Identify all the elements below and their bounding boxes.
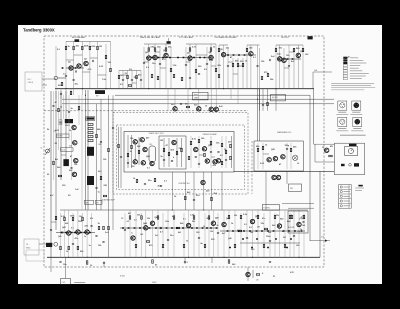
- junction 2: [82, 88, 83, 89]
- capacitor C92: [293, 236, 295, 237]
- resistor R26: [170, 68, 172, 71]
- svg-text:Tandberg 3300X: Tandberg 3300X: [23, 27, 55, 32]
- wire vertical out 16: [297, 45, 299, 89]
- capacitor C48: [70, 168, 72, 169]
- resistor R29b: [157, 76, 159, 79]
- left link c: [51, 221, 56, 223]
- left link a: [54, 130, 57, 132]
- resistor R27: [195, 69, 197, 72]
- resistor mic-amp R14: [97, 46, 99, 49]
- table row line 4: [339, 202, 352, 204]
- wire vertical rec-amp 8: [189, 44, 191, 89]
- capacitor C83: [217, 233, 219, 234]
- resistor bm R133: [204, 244, 206, 247]
- resistor R28: [215, 68, 217, 71]
- wire vertical out 7: [246, 45, 248, 89]
- relay board inner dashed box: [117, 125, 245, 190]
- resistor rec-amp R20: [148, 48, 150, 51]
- resistor eq R31: [127, 75, 129, 78]
- rotary switch S1: [45, 148, 50, 155]
- transistor Q5: [153, 55, 157, 59]
- resistor R72b: [131, 145, 133, 148]
- left harness wire 4: [68, 95, 70, 140]
- wire vertical mic-amp 1: [55, 46, 57, 89]
- central right wire 2: [198, 136, 200, 168]
- bot-mid path series part 3: [134, 227, 136, 229]
- tape speed box: [61, 279, 71, 285]
- bot-mid wire 10: [173, 210, 175, 257]
- pb path series part 6: [84, 232, 86, 234]
- resistor br R152: [257, 215, 259, 218]
- rec-amp link 4: [186, 61, 190, 63]
- eq switch box: [271, 95, 286, 101]
- svg-text:R LEVEL: R LEVEL: [264, 208, 270, 210]
- svg-text:TRACK SEL REC AMP: TRACK SEL REC AMP: [140, 36, 161, 39]
- legend text row 5: [350, 67, 359, 69]
- bot-mid path series part 13: [196, 227, 198, 229]
- wire vertical rec-amp 1: [143, 47, 145, 89]
- central left wire 2: [138, 137, 140, 165]
- resistor R57: [53, 161, 55, 164]
- pb amp wire 8: [91, 213, 93, 257]
- wire mic-amp top rail: [66, 41, 111, 43]
- VU meter symbol: [348, 148, 353, 153]
- resistor pb R102: [82, 217, 84, 220]
- capacitor C81: [167, 240, 169, 241]
- resistor bm R124: [193, 216, 195, 219]
- bot-mid path series part 12: [191, 227, 193, 229]
- legend text row 9: [350, 78, 362, 80]
- resistor br R151: [240, 215, 242, 218]
- resistor R66: [221, 143, 223, 146]
- table row symbol 2: [340, 191, 342, 193]
- below-bus stub 3: [65, 89, 67, 99]
- capacitor C31: [227, 66, 229, 67]
- bot-mid wire 8: [162, 213, 164, 257]
- shield drop rec: [168, 38, 170, 44]
- pinout caption BC147: [338, 111, 346, 113]
- junction 18: [203, 209, 204, 210]
- pb path series part 4: [74, 232, 76, 234]
- transistor Q39: [276, 175, 280, 179]
- transistor Q8: [209, 55, 213, 59]
- resistor pb R100: [64, 217, 66, 220]
- bot-right wire 1: [223, 210, 225, 257]
- resistor br R150: [228, 215, 230, 218]
- below-bus stub 6: [81, 89, 83, 95]
- meter unit box: [335, 143, 365, 175]
- bot-mid wire 15: [204, 213, 206, 257]
- resistor R29d: [181, 77, 183, 80]
- switch col wire 4: [65, 91, 67, 160]
- mic-amp path series part 1: [62, 67, 64, 69]
- din connector box: [289, 184, 302, 191]
- rec-amp path series part 8: [199, 57, 201, 59]
- resistor rec-amp R22: [165, 48, 167, 51]
- svg-text:1k8: 1k8: [302, 225, 305, 227]
- junction 15: [252, 257, 253, 258]
- wire vertical rec-amp 10: [206, 47, 208, 89]
- wire vertical rec-amp 5: [165, 44, 167, 89]
- capacitor C56: [120, 157, 122, 158]
- bot-mid wire 3: [135, 210, 137, 257]
- wire vertical out 4: [232, 58, 234, 89]
- svg-text:4k7: 4k7: [128, 212, 131, 215]
- bot-mid wire 9: [167, 210, 169, 257]
- out-amp path series part 3: [238, 54, 240, 56]
- bot-mid path series part 6: [155, 227, 157, 229]
- svg-text:X1: X1: [273, 276, 275, 278]
- transistor Q25: [133, 160, 137, 164]
- bot-mid wire 5: [145, 210, 147, 257]
- svg-text:PB/REC REL AMP: PB/REC REL AMP: [203, 133, 218, 136]
- bot-right extra2 series part 4: [286, 247, 288, 249]
- wire meter drop: [314, 144, 316, 162]
- switch stack 1: [63, 159, 69, 166]
- pinout circle AC187: [340, 119, 345, 124]
- resistor osc-div R45: [232, 63, 234, 66]
- capacitor C71: [72, 244, 74, 245]
- capacitor C34: [270, 59, 271, 61]
- bot-right wire 10: [274, 213, 276, 257]
- pb amp wire 2: [64, 210, 66, 257]
- capacitor C58: [112, 128, 114, 129]
- capacitor C90: [246, 238, 248, 239]
- resistor R49: [261, 76, 263, 79]
- capacitor C14: [206, 64, 208, 65]
- switch housing label: [87, 117, 94, 119]
- bot-right wire 16: [303, 213, 305, 257]
- resistor br R153: [274, 215, 276, 218]
- wire CN2 to amp: [39, 243, 53, 245]
- partition drop 4: [198, 89, 200, 111]
- svg-text:R/P: R/P: [96, 96, 99, 98]
- pb connect: [103, 261, 105, 267]
- transistor Q27: [150, 161, 154, 165]
- switch contact 3: [88, 132, 93, 134]
- wire eq net vertical 3: [127, 71, 129, 89]
- resistor out R40: [218, 48, 220, 51]
- svg-text:BIAS/ERASE OSC: BIAS/ERASE OSC: [277, 131, 292, 134]
- mid drop 1: [96, 104, 98, 210]
- transistor Q17: [214, 107, 218, 111]
- bot-right wire 6: [252, 210, 254, 257]
- bot-right extra series part 2: [256, 238, 258, 240]
- pinout caption AC187: [338, 128, 346, 130]
- svg-text:PLAYBACK AMP: PLAYBACK AMP: [102, 199, 116, 202]
- bot-mid path series part 9: [171, 227, 173, 229]
- pb head jack circle: [54, 242, 58, 246]
- resistor R71: [211, 197, 213, 200]
- resistor R50: [186, 106, 189, 108]
- transistor Q7: [188, 56, 192, 60]
- transistor Q34: [201, 180, 205, 184]
- transistor Q20: [74, 158, 78, 162]
- legend symbol 3: [343, 62, 347, 64]
- eq net link2: [132, 82, 137, 84]
- junction 9: [257, 99, 258, 100]
- capacitor C15: [189, 78, 191, 79]
- capacitor C33: [288, 66, 290, 67]
- svg-text:2k7: 2k7: [283, 237, 286, 239]
- transistor Q18: [72, 125, 76, 129]
- svg-text:TRACK SEL 7.5/3.8: TRACK SEL 7.5/3.8: [149, 132, 164, 135]
- capacitor C72: [62, 231, 63, 233]
- osc net link 1: [228, 61, 233, 63]
- svg-text:S1: S1: [41, 148, 43, 150]
- left harness wire 7: [81, 95, 83, 210]
- transistor Q13: [296, 53, 300, 57]
- bot-right wire 4: [240, 213, 242, 257]
- bottom label line: [74, 282, 85, 284]
- transistor Q51: [277, 224, 281, 228]
- transistor Q15: [197, 107, 201, 111]
- pinout caption BC149: [352, 111, 360, 113]
- mic-amp signal path: [58, 77, 66, 79]
- osc dashed drop: [251, 141, 253, 194]
- capacitor C57: [100, 142, 102, 143]
- central left wire a: [127, 135, 129, 168]
- resistor R69: [230, 156, 232, 159]
- capacitor C101 below bus: [103, 263, 105, 264]
- svg-text:5 PO REC AMP: 5 PO REC AMP: [179, 36, 194, 39]
- wire CN1 to board: [42, 78, 56, 80]
- partition drop 6: [215, 89, 217, 111]
- central right wire 4: [221, 136, 223, 168]
- resistor R56: [78, 106, 80, 109]
- svg-text:PB: PB: [26, 244, 28, 246]
- rec-amp path series part 6: [183, 57, 185, 59]
- central left wire 1: [134, 144, 136, 160]
- out top rail b: [247, 44, 260, 46]
- bottom stub left: [50, 257, 52, 272]
- transistor Q30: [202, 147, 206, 151]
- bot-mid signal path: [120, 227, 218, 229]
- capacitor C2: [73, 80, 75, 81]
- wire vertical rec-amp 7: [185, 47, 187, 89]
- rec-amp path series part 5: [177, 57, 179, 59]
- pb amp wire 1: [60, 213, 62, 257]
- bot-right wire 2: [228, 210, 230, 257]
- out link 5: [284, 67, 289, 69]
- inner module box: [159, 136, 186, 169]
- central left wire b: [131, 135, 133, 168]
- bot-right path series part 4: [243, 230, 245, 232]
- svg-text:Q49: Q49: [228, 237, 232, 240]
- capacitor C1: [65, 76, 67, 77]
- resistor R64b: [188, 156, 190, 159]
- transistor Q24: [143, 147, 147, 151]
- wire eq net vertical 2: [122, 71, 124, 89]
- wire vertical mic-amp 5: [89, 42, 91, 89]
- capacitor C52b: [195, 157, 197, 158]
- left harness wire 6: [78, 95, 80, 125]
- bot-mid path series part 7: [160, 227, 162, 229]
- note paragraph line 1: [331, 83, 374, 85]
- transistor Q37: [281, 155, 285, 159]
- bot-mid wire 16: [208, 210, 210, 257]
- wire vertical out 5: [237, 58, 239, 89]
- transistor Q41: [67, 231, 71, 235]
- bot-right extra2 series part 3: [267, 247, 269, 249]
- wire vertical rec-amp 2: [148, 44, 150, 89]
- svg-text:330: 330: [276, 215, 279, 217]
- resistor R67b: [221, 161, 223, 164]
- resistor R34: [128, 85, 131, 87]
- pb amp wire 5: [77, 210, 79, 257]
- bot-right wire 15: [298, 210, 300, 257]
- below-bus drop 4: [275, 89, 277, 111]
- capacitor C38: [262, 105, 264, 106]
- resistor mic-amp R10: [65, 46, 67, 49]
- svg-text:2u2: 2u2: [155, 235, 158, 237]
- table row symbol 3: [340, 195, 342, 197]
- amplifier board dashed border: [44, 36, 324, 267]
- pb path series part 2: [65, 232, 67, 234]
- inner box wire 1: [163, 138, 165, 167]
- capacitor C62: [160, 186, 162, 187]
- central right wire 3: [210, 136, 212, 168]
- resistor br R161: [263, 244, 265, 247]
- table side note 1: [355, 187, 364, 189]
- table column divider: [348, 185, 350, 209]
- table row text 4: [344, 200, 351, 202]
- meter window: [345, 147, 358, 156]
- svg-text:100u: 100u: [266, 236, 271, 238]
- resistor rec-amp R21: [154, 48, 156, 51]
- wire vertical rec-amp 11: [210, 44, 212, 89]
- bot-right wire 7: [257, 210, 259, 257]
- resistor R77: [103, 195, 106, 197]
- svg-text:0 dB: 0 dB: [314, 70, 317, 72]
- svg-text:N 4211: N 4211: [120, 276, 125, 278]
- bot-mid path series part 8: [166, 227, 168, 229]
- bottom stub mid: [184, 257, 186, 264]
- legend text row 2: [350, 59, 364, 61]
- bot-right path series part 6: [256, 230, 258, 232]
- capacitor C84: [160, 227, 161, 229]
- table row text 5: [344, 205, 351, 207]
- junction 10: [68, 257, 69, 258]
- svg-text:1M: 1M: [99, 46, 102, 48]
- legend text row 8: [350, 75, 366, 77]
- legend symbol 5: [343, 67, 347, 69]
- rail line 3: [62, 103, 334, 105]
- resistor R52: [267, 102, 269, 105]
- supply rail B+: [115, 94, 310, 96]
- central right wire 5: [225, 136, 227, 168]
- legend symbol 1: [343, 57, 347, 59]
- below-bus stub 1: [55, 89, 57, 99]
- erase head block: [65, 119, 73, 123]
- legend text row 6: [350, 70, 363, 72]
- bot-right extra series part 1: [242, 238, 244, 240]
- left harness wire 3: [63, 95, 65, 119]
- phono input box CN2: [24, 239, 39, 255]
- transistor Q47: [211, 221, 215, 225]
- resistor R75: [108, 148, 110, 151]
- arrow out: [325, 239, 328, 241]
- inner box wire 4: [181, 138, 183, 167]
- resistor R30s: [70, 91, 72, 94]
- bot-mid path series part 5: [149, 227, 151, 229]
- wire vertical rec-amp 9: [195, 44, 197, 89]
- resistor bm R120: [129, 216, 131, 219]
- wire vertical out 17: [302, 45, 304, 89]
- mid drop 2: [100, 99, 102, 210]
- capacitor C52d: [225, 160, 227, 161]
- central link 1: [199, 154, 204, 156]
- capacitor C52: [210, 152, 212, 153]
- capacitor C55: [193, 200, 195, 201]
- transistor Q22: [133, 140, 137, 144]
- wire vertical out 9: [257, 45, 259, 89]
- svg-text:RL1: RL1: [150, 144, 153, 146]
- transistor Q28: [172, 140, 176, 144]
- svg-text:0V: 0V: [187, 262, 189, 264]
- resistor br R155: [303, 215, 305, 218]
- pinout pins AC187: [341, 121, 344, 124]
- svg-text:0.1: 0.1: [183, 219, 186, 221]
- below-bus drop 1: [259, 89, 261, 111]
- capacitor C3: [76, 70, 77, 72]
- resistor R29c: [173, 74, 175, 77]
- resistor out R44: [302, 48, 304, 51]
- legend symbol 9: [343, 78, 347, 80]
- capacitor C60: [286, 149, 288, 150]
- dashed partition line: [44, 110, 248, 112]
- bot-mid wire 7: [157, 210, 159, 257]
- pb path series part 3: [71, 232, 73, 234]
- pb amp wire 6: [82, 213, 84, 257]
- bot-right path series part 1: [227, 230, 229, 232]
- transistor Q42: [76, 230, 80, 234]
- out link 4: [289, 51, 294, 53]
- wire vertical rec-amp 3: [154, 44, 156, 89]
- mid drop 3: [108, 95, 110, 257]
- capacitor C96: [102, 242, 104, 243]
- connector block J1: [308, 36, 313, 39]
- resistor R78: [136, 179, 138, 182]
- osc net link 3: [233, 73, 238, 75]
- resistor pb R101: [72, 217, 74, 220]
- schematic sheet: [18, 25, 382, 284]
- rec-amp link 3: [160, 67, 166, 69]
- junction 17: [172, 209, 173, 210]
- svg-text:MIC/LINE AMP: MIC/LINE AMP: [72, 36, 86, 39]
- transistor Q9: [221, 52, 225, 56]
- left harness wire 5: [71, 130, 73, 180]
- junction 14: [223, 257, 224, 258]
- bot-right extra series part 4: [290, 238, 292, 240]
- osc out drop 2: [286, 171, 288, 184]
- pb path series part 5: [80, 232, 82, 234]
- partition drop short 2: [237, 89, 239, 104]
- cap C45 hatch: [59, 120, 62, 125]
- legend pointer NB: [347, 56, 350, 58]
- bot-mid path series part 2: [128, 227, 130, 229]
- note paragraph line 2: [331, 85, 371, 87]
- transistor Q36: [273, 156, 277, 160]
- relay coil RL1: [149, 146, 156, 162]
- transistor Q1: [69, 66, 73, 70]
- capacitor C49: [50, 230, 52, 231]
- partition drop 2: [174, 89, 176, 111]
- wire vertical out 2: [223, 45, 225, 89]
- transistor Q16: [209, 107, 213, 111]
- bot-mid wire 14: [198, 210, 200, 257]
- resistor eq R32: [136, 75, 138, 78]
